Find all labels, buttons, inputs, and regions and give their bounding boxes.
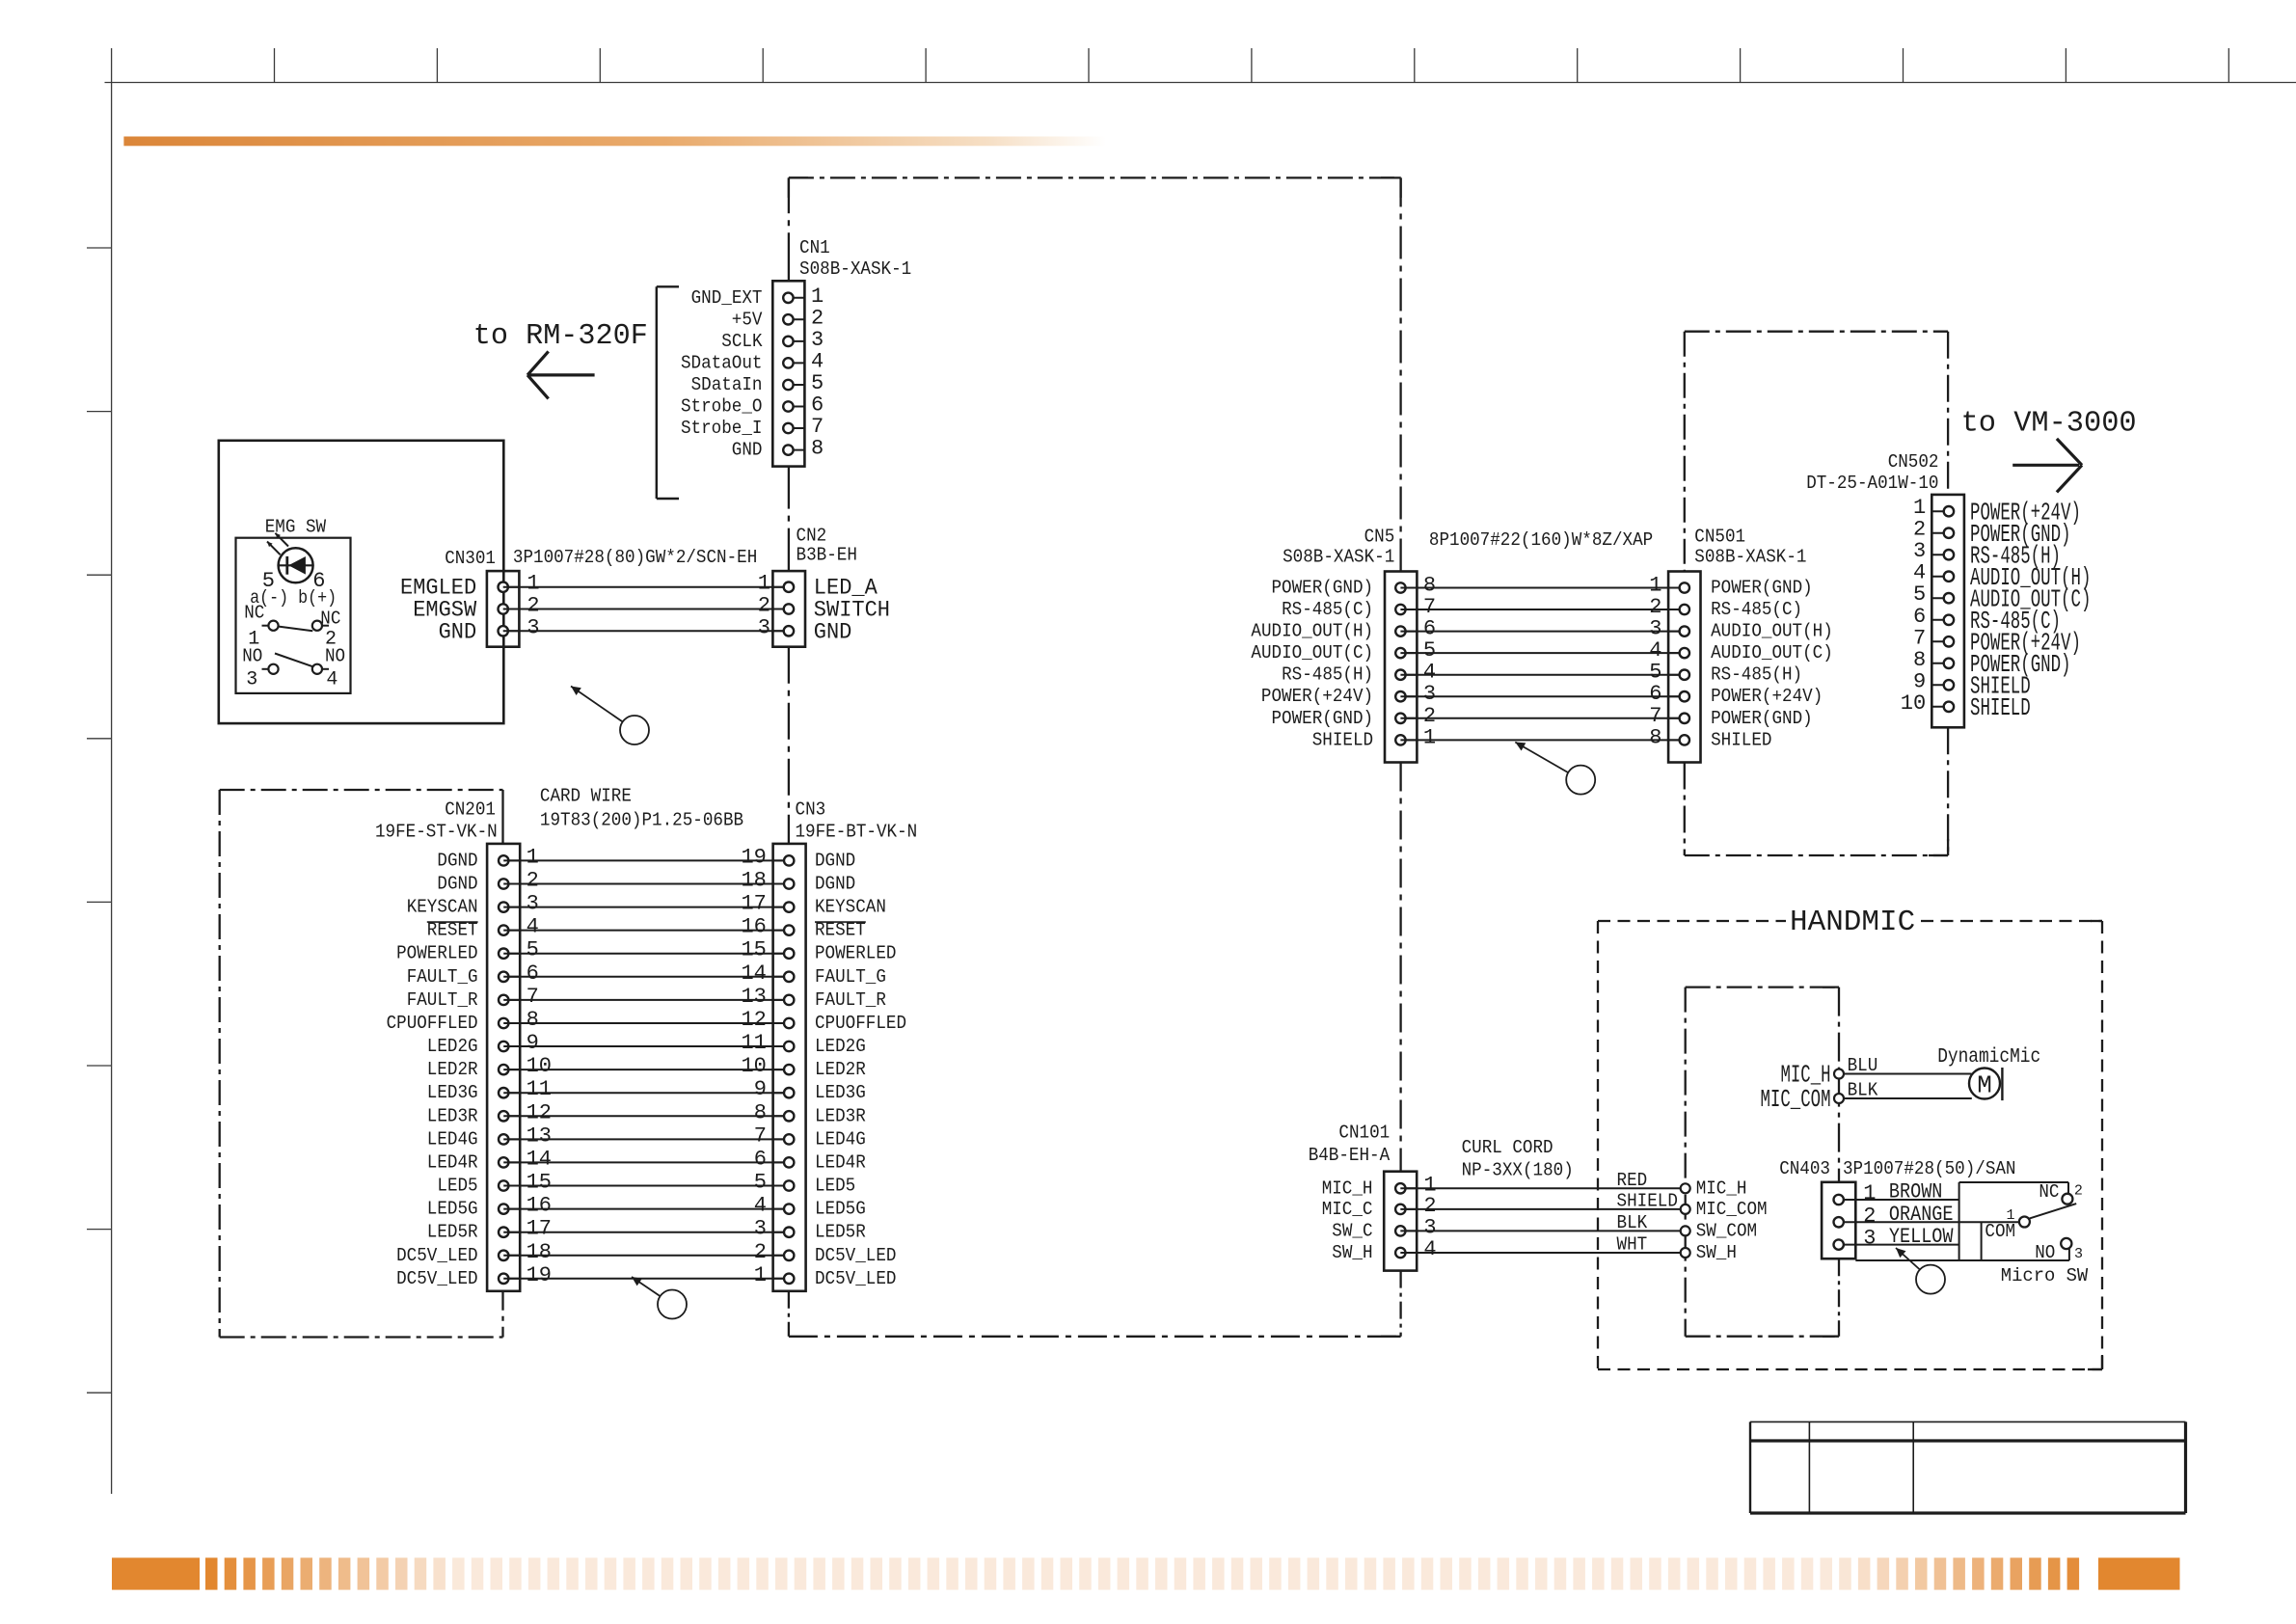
svg-text:S08B-XASK-1: S08B-XASK-1 (799, 258, 911, 280)
wire label 19T83(200)P1.25-06BB (540, 810, 743, 831)
CN301 pin numbers 1-3 (527, 572, 539, 640)
svg-text:9: 9 (527, 1031, 539, 1055)
wire CN403 pin1 BROWN to NC (1855, 1182, 2068, 1200)
CN502 pin numbers 1-10 (1901, 496, 1926, 716)
svg-text:CN2: CN2 (797, 526, 827, 547)
svg-text:DC5V_LED: DC5V_LED (815, 1268, 897, 1289)
LED diode symbol (EMG) (279, 548, 313, 582)
svg-text:1: 1 (527, 845, 539, 869)
svg-text:2: 2 (758, 594, 770, 618)
svg-text:LED5G: LED5G (815, 1199, 866, 1220)
svg-text:2: 2 (1423, 704, 1436, 728)
svg-text:POWERLED: POWERLED (396, 943, 478, 964)
handmic title (1790, 906, 1915, 939)
svg-text:2: 2 (527, 869, 539, 893)
board outline dash-dot CN3 to bottom rail (788, 1291, 790, 1337)
svg-text:KEYSCAN: KEYSCAN (815, 897, 886, 918)
card dash-dot frame top edge (220, 789, 503, 791)
svg-text:LED3R: LED3R (427, 1105, 478, 1126)
svg-text:2: 2 (1913, 518, 1926, 542)
wire CN403 pin2 ORANGE to COM (1855, 1221, 2019, 1223)
svg-text:14: 14 (527, 1147, 552, 1171)
svg-text:4: 4 (754, 1194, 767, 1218)
svg-text:POWER(GND): POWER(GND) (1711, 578, 1813, 599)
svg-text:POWER(+24V): POWER(+24V) (1711, 686, 1823, 707)
LED light emission arrows (267, 533, 288, 555)
CN403 wire color labels (1889, 1180, 1954, 1250)
svg-text:2: 2 (754, 1240, 767, 1264)
svg-text:17: 17 (741, 892, 766, 916)
CN501 signal names (1711, 578, 1833, 751)
handmic inner dash-dot left edge (1685, 988, 1687, 1337)
label CN301 (445, 548, 496, 569)
border ruler left line (111, 83, 113, 1495)
handmic inner dash-dot right edge lower (1838, 1259, 1840, 1337)
svg-text:10: 10 (1901, 691, 1926, 716)
svg-text:2: 2 (2074, 1183, 2083, 1200)
vm dash-dot frame bottom edge (1685, 854, 1948, 856)
svg-text:1: 1 (2007, 1207, 2015, 1224)
label NC right (320, 609, 340, 630)
svg-text:CN1: CN1 (799, 237, 830, 258)
svg-text:B4B-EH-A: B4B-EH-A (1309, 1145, 1391, 1166)
board outline dash-dot bottom rail (789, 1336, 1401, 1338)
EMG switch NO terminal 3 (262, 664, 279, 674)
svg-text:11: 11 (527, 1077, 552, 1101)
svg-text:7: 7 (1423, 595, 1436, 619)
svg-text:8: 8 (1649, 725, 1661, 749)
svg-text:2: 2 (1423, 1194, 1436, 1218)
svg-text:LED5R: LED5R (815, 1222, 866, 1243)
svg-text:SDataOut: SDataOut (681, 352, 763, 373)
svg-text:3: 3 (527, 892, 539, 916)
label CN5 (1364, 527, 1395, 548)
svg-text:MIC_C: MIC_C (1322, 1199, 1373, 1220)
label CN3 part 19FE-BT-VK-N (796, 821, 918, 842)
board outline dash-dot CN2-CN3 segment (788, 647, 790, 844)
svg-text:3: 3 (758, 615, 770, 639)
svg-text:18: 18 (741, 869, 766, 893)
svg-text:3: 3 (527, 615, 539, 639)
label a(-) b(+) (250, 587, 337, 609)
CN2 pin numbers 1-3 (758, 572, 770, 640)
handmic node terminals MIC_H MIC_COM SW_COM SW_H (1681, 1177, 1768, 1263)
svg-text:LED4R: LED4R (427, 1151, 478, 1173)
svg-text:11: 11 (741, 1031, 766, 1055)
connector CN1 (772, 281, 804, 466)
CN403 pin numbers 1-3 (1863, 1181, 1876, 1251)
label CN3 (796, 798, 826, 820)
svg-text:NP-3XX(180): NP-3XX(180) (1462, 1160, 1574, 1181)
svg-text:SHIELD: SHIELD (1617, 1190, 1678, 1211)
svg-text:5: 5 (1913, 582, 1926, 607)
CN201 pin numbers 1-19 (527, 845, 552, 1286)
CN502 signal names (1970, 498, 2091, 722)
svg-text:MIC_H: MIC_H (1696, 1177, 1747, 1199)
callout circle 2 (card wire) (632, 1277, 687, 1319)
svg-text:10: 10 (741, 1054, 766, 1078)
svg-text:19: 19 (527, 1263, 552, 1287)
svg-text:9: 9 (1913, 669, 1926, 693)
svg-text:5: 5 (811, 371, 824, 395)
board outline dash-dot left drop to CN1 (788, 177, 790, 281)
svg-text:CN3: CN3 (796, 798, 826, 820)
svg-text:9: 9 (754, 1077, 767, 1101)
CN101 signal names (1322, 1177, 1373, 1263)
wire mic BLU (1844, 1073, 1972, 1075)
svg-text:COM: COM (1985, 1221, 2015, 1242)
board outline dash-dot CN1-CN2 segment (788, 467, 790, 571)
svg-text:RS-485(C): RS-485(C) (1711, 599, 1802, 620)
wires CN5 to CN501 (1400, 588, 1684, 741)
svg-text:AUDIO_OUT(H): AUDIO_OUT(H) (1251, 621, 1373, 642)
svg-text:AUDIO_OUT(C): AUDIO_OUT(C) (1251, 642, 1373, 663)
card dash-dot frame left edge (219, 790, 221, 1338)
svg-text:8: 8 (754, 1100, 767, 1124)
svg-text:NO: NO (325, 645, 345, 666)
wire label CURL CORD (1462, 1137, 1553, 1158)
label CN201 part 19FE-ST-VK-N (375, 821, 498, 842)
svg-text:5: 5 (527, 938, 539, 962)
svg-text:MIC_COM: MIC_COM (1696, 1199, 1768, 1220)
svg-text:LED2R: LED2R (815, 1059, 866, 1080)
curl cord wire color labels (1617, 1170, 1678, 1256)
svg-text:LED3G: LED3G (815, 1082, 866, 1103)
svg-text:3: 3 (1863, 1227, 1876, 1251)
svg-text:7: 7 (811, 415, 824, 439)
svg-text:DynamicMic: DynamicMic (1937, 1046, 2040, 1069)
svg-text:DC5V_LED: DC5V_LED (396, 1268, 478, 1289)
title block table (1750, 1421, 2186, 1513)
connector CN502 (1931, 495, 1964, 727)
svg-text:2: 2 (1863, 1204, 1876, 1228)
micro switch lever (2030, 1204, 2077, 1218)
svg-text:to RM-320F: to RM-320F (473, 319, 648, 353)
bottom orange striped bar (112, 1557, 2180, 1589)
svg-text:CARD WIRE: CARD WIRE (540, 786, 632, 807)
CN1 signal names (681, 287, 763, 461)
label DynamicMic (1937, 1046, 2040, 1069)
svg-text:6: 6 (811, 393, 824, 418)
svg-text:7: 7 (754, 1123, 767, 1148)
svg-text:DGND: DGND (437, 874, 477, 895)
svg-text:SW_COM: SW_COM (1696, 1220, 1757, 1241)
handmic dashed box top edge right part (1921, 920, 2102, 922)
svg-text:NO: NO (2035, 1242, 2055, 1263)
svg-text:LED2R: LED2R (427, 1059, 478, 1080)
svg-text:18: 18 (527, 1240, 552, 1264)
EMG switch NO lever (275, 654, 313, 667)
vm dash-dot frame left edge lower (1684, 763, 1686, 856)
board outline dash-dot CN101-CN5 segment (1399, 763, 1401, 1172)
svg-text:5: 5 (1649, 661, 1661, 685)
CN101 pin numbers 1-4 (1423, 1173, 1436, 1261)
svg-text:POWER(+24V): POWER(+24V) (1261, 686, 1373, 707)
arrow to VM-3000 (2012, 439, 2082, 493)
svg-text:1: 1 (1863, 1181, 1876, 1205)
svg-text:POWERLED: POWERLED (815, 943, 897, 964)
EMG SW inner box (236, 538, 351, 693)
svg-text:RS-485(H): RS-485(H) (1711, 664, 1802, 686)
svg-text:SHIELD: SHIELD (1970, 693, 2031, 722)
svg-text:CN5: CN5 (1364, 527, 1395, 548)
svg-text:NC: NC (2039, 1181, 2059, 1203)
svg-text:8: 8 (1423, 574, 1436, 598)
svg-text:to VM-3000: to VM-3000 (1961, 407, 2137, 441)
label to RM-320F (473, 319, 648, 353)
wire label box right edge (1958, 1200, 1960, 1260)
svg-text:POWER(GND): POWER(GND) (1711, 708, 1813, 729)
svg-text:DC5V_LED: DC5V_LED (396, 1245, 478, 1266)
connector CN101 (1384, 1172, 1417, 1271)
svg-text:SDataIn: SDataIn (691, 374, 763, 395)
label CN501 part S08B-XASK-1 (1694, 546, 1806, 567)
svg-text:LED4G: LED4G (815, 1128, 866, 1150)
svg-text:10: 10 (527, 1054, 552, 1078)
svg-text:CPUOFFLED: CPUOFFLED (387, 1013, 478, 1034)
svg-text:CN501: CN501 (1694, 527, 1745, 548)
svg-text:4: 4 (811, 349, 824, 373)
svg-text:GND: GND (814, 619, 852, 644)
svg-text:GND_EXT: GND_EXT (691, 287, 763, 309)
svg-text:6: 6 (1913, 605, 1926, 629)
connector CN403 (1822, 1182, 1855, 1259)
svg-text:S08B-XASK-1: S08B-XASK-1 (1283, 546, 1394, 567)
svg-text:MIC_H: MIC_H (1322, 1177, 1373, 1199)
svg-text:4: 4 (1913, 561, 1926, 585)
board outline dash-dot rail to CN101 (1399, 1271, 1401, 1337)
svg-text:SW_H: SW_H (1696, 1242, 1737, 1263)
svg-text:FAULT_G: FAULT_G (407, 966, 478, 988)
svg-text:CPUOFFLED: CPUOFFLED (815, 1013, 906, 1034)
svg-text:15: 15 (741, 938, 766, 962)
LED pin number 5 (262, 569, 275, 593)
svg-text:3: 3 (246, 669, 257, 691)
label CN1 (799, 237, 830, 258)
micro switch NC terminal (2039, 1181, 2083, 1204)
svg-text:14: 14 (741, 961, 766, 986)
callout circle 3 (vm cable) (1515, 743, 1595, 795)
svg-text:LED5: LED5 (437, 1176, 477, 1197)
svg-text:LED4G: LED4G (427, 1128, 478, 1150)
svg-text:2: 2 (527, 594, 539, 618)
svg-text:GND: GND (732, 440, 763, 461)
dash-dot corner patches (789, 177, 2102, 1369)
svg-text:6: 6 (1649, 682, 1661, 706)
svg-text:KEYSCAN: KEYSCAN (407, 897, 478, 918)
svg-text:12: 12 (741, 1008, 766, 1032)
EMG switch NC terminal 2 (312, 621, 329, 631)
svg-text:LED3R: LED3R (815, 1105, 866, 1126)
vm dash-dot frame top edge (1685, 331, 1948, 333)
label NO left (242, 645, 262, 666)
wires CN201 to CN3 (503, 860, 789, 1278)
svg-text:3: 3 (1423, 1215, 1436, 1239)
svg-text:LED2G: LED2G (427, 1036, 478, 1057)
svg-text:3: 3 (754, 1217, 767, 1241)
connector CN3 (773, 844, 806, 1291)
svg-text:4: 4 (1649, 638, 1661, 663)
svg-text:CURL CORD: CURL CORD (1462, 1137, 1553, 1158)
label Micro SW (2001, 1265, 2089, 1286)
svg-text:2: 2 (1649, 595, 1661, 619)
wire mic BLK (1844, 1097, 1972, 1099)
EMG unit outer box (219, 441, 504, 723)
svg-text:1: 1 (754, 1263, 767, 1287)
CN5 signal names (1251, 578, 1373, 751)
svg-text:POWER(GND): POWER(GND) (1272, 708, 1374, 729)
label CN501 (1694, 527, 1745, 548)
svg-text:12: 12 (527, 1100, 552, 1124)
connector CN2 (772, 571, 805, 647)
svg-text:FAULT_G: FAULT_G (815, 966, 886, 988)
connector CN5 (1385, 572, 1417, 763)
connector CN301 (487, 571, 520, 647)
svg-text:8P1007#22(160)W*8Z/XAP: 8P1007#22(160)W*8Z/XAP (1429, 529, 1653, 551)
svg-text:Strobe_I: Strobe_I (681, 418, 763, 439)
svg-text:GND: GND (439, 619, 477, 644)
svg-text:15: 15 (527, 1171, 552, 1195)
svg-text:SHILED: SHILED (1711, 729, 1771, 750)
svg-text:1: 1 (758, 572, 770, 596)
top orange gradient bar (123, 137, 1106, 147)
svg-text:Micro SW: Micro SW (2001, 1265, 2089, 1286)
svg-text:4: 4 (527, 915, 539, 939)
node MIC_H (mic) (1781, 1061, 1845, 1090)
card frame drop to CN201 top (501, 790, 503, 844)
svg-text:CN403: CN403 (1779, 1158, 1830, 1179)
border ruler top line (105, 82, 2296, 84)
label NC left (244, 603, 264, 624)
label CN403 (1779, 1158, 1830, 1179)
wire BLK label (1848, 1080, 1878, 1101)
vm dash-dot frame right edge upper (1947, 332, 1949, 495)
callout circle 1 (EMG cable) (571, 687, 649, 745)
board outline dash-dot CN5 top drop (1399, 177, 1401, 571)
svg-text:Strobe_O: Strobe_O (681, 396, 763, 418)
svg-text:7: 7 (1649, 704, 1661, 728)
EMG pin number 1 (248, 629, 259, 651)
svg-text:19: 19 (741, 845, 766, 869)
svg-text:6: 6 (754, 1147, 767, 1171)
svg-text:NO: NO (242, 645, 262, 666)
label CN2 part B3B-EH (797, 545, 857, 566)
svg-text:RED: RED (1617, 1170, 1648, 1191)
LED pin number 6 (312, 569, 325, 593)
svg-text:DGND: DGND (815, 850, 855, 871)
svg-text:17: 17 (527, 1217, 552, 1241)
svg-text:16: 16 (527, 1194, 552, 1218)
svg-text:3: 3 (1423, 682, 1436, 706)
handmic dashed box right edge (2101, 921, 2103, 1369)
svg-text:5: 5 (1423, 638, 1436, 663)
svg-text:LED4R: LED4R (815, 1151, 866, 1173)
svg-text:3: 3 (2074, 1246, 2083, 1262)
micro switch COM terminal (1985, 1207, 2029, 1242)
EMG switch NO terminal 4 (312, 664, 329, 674)
svg-text:1: 1 (527, 572, 539, 596)
handmic dashed box left edge (1597, 921, 1599, 1369)
connector CN501 (1668, 572, 1700, 763)
CN501 pin numbers 1-8 (1649, 574, 1661, 750)
svg-text:DC5V_LED: DC5V_LED (815, 1245, 897, 1266)
label to VM-3000 (1961, 407, 2137, 441)
svg-text:19T83(200)P1.25-06BB: 19T83(200)P1.25-06BB (540, 810, 743, 831)
svg-text:SW_C: SW_C (1332, 1220, 1372, 1241)
svg-text:HANDMIC: HANDMIC (1790, 906, 1915, 939)
svg-text:3: 3 (1913, 539, 1926, 563)
label CN502 part DT-25-A01W-10 (1806, 473, 1938, 494)
svg-text:SW_H: SW_H (1332, 1242, 1372, 1263)
svg-text:DT-25-A01W-10: DT-25-A01W-10 (1806, 473, 1938, 494)
callout circle 4 (handmic cable) (1896, 1248, 1945, 1294)
svg-text:AUDIO_OUT(C): AUDIO_OUT(C) (1711, 642, 1833, 663)
svg-text:CN301: CN301 (445, 548, 496, 569)
CN3 pin numbers 19-1 (741, 845, 766, 1286)
CN1 bracket (657, 286, 679, 499)
svg-text:1: 1 (1423, 725, 1436, 749)
svg-text:POWER(GND): POWER(GND) (1272, 578, 1374, 599)
wires CN101 to handmic (1400, 1188, 1685, 1253)
svg-text:BLK: BLK (1617, 1212, 1648, 1233)
svg-text:LED5: LED5 (815, 1176, 855, 1197)
svg-text:8: 8 (811, 437, 824, 461)
svg-text:5: 5 (754, 1171, 767, 1195)
wire label NP-3XX(180) (1462, 1160, 1574, 1181)
svg-text:8: 8 (527, 1008, 539, 1032)
svg-text:13: 13 (527, 1123, 552, 1148)
svg-text:WHT: WHT (1617, 1234, 1648, 1256)
svg-text:CN101: CN101 (1338, 1122, 1390, 1143)
svg-text:1: 1 (1913, 496, 1926, 520)
label CN403 part 3P1007#28(50)/SAN (1843, 1158, 2016, 1179)
svg-text:LED5G: LED5G (427, 1199, 478, 1220)
micro switch NO terminal (2035, 1238, 2083, 1263)
handmic inner dash-dot bottom edge (1686, 1336, 1839, 1338)
handmic dashed box top edge left part (1598, 920, 1786, 922)
CN5 pin numbers 8-1 (1423, 574, 1436, 750)
svg-text:6: 6 (1423, 617, 1436, 641)
EMG pin number 3 (246, 669, 257, 691)
EMG pin number 2 (325, 629, 337, 651)
svg-text:3P1007#28(80)GW*2/SCN-EH: 3P1007#28(80)GW*2/SCN-EH (513, 547, 757, 568)
card frame drop from CN201 bottom (501, 1291, 503, 1338)
svg-text:NC: NC (244, 603, 264, 624)
svg-text:1: 1 (811, 284, 824, 309)
svg-text:19FE-BT-VK-N: 19FE-BT-VK-N (796, 821, 918, 842)
label CN101 (1338, 1122, 1390, 1143)
svg-text:16: 16 (741, 915, 766, 939)
svg-text:1: 1 (1649, 574, 1661, 598)
svg-text:CN502: CN502 (1888, 451, 1939, 473)
svg-text:EMG SW: EMG SW (265, 517, 327, 538)
svg-text:19FE-ST-VK-N: 19FE-ST-VK-N (375, 821, 498, 842)
handmic inner dash-dot right edge upper (1838, 988, 1840, 1182)
svg-text:3: 3 (811, 328, 824, 352)
wire CN403 pin3 YELLOW (1855, 1244, 1958, 1246)
svg-text:LED5R: LED5R (427, 1222, 478, 1243)
svg-text:13: 13 (741, 985, 766, 1009)
wire BLU label (1848, 1055, 1878, 1076)
svg-text:DGND: DGND (815, 874, 855, 895)
svg-text:CN201: CN201 (445, 798, 496, 820)
label CN101 part B4B-EH-A (1309, 1145, 1391, 1166)
svg-text:3P1007#28(50)/SAN: 3P1007#28(50)/SAN (1843, 1158, 2016, 1179)
border ruler left ticks (87, 248, 112, 1393)
svg-text:LED3G: LED3G (427, 1082, 478, 1103)
wire label CARD WIRE (540, 786, 632, 807)
EMG switch NC terminal 1 (262, 621, 279, 631)
